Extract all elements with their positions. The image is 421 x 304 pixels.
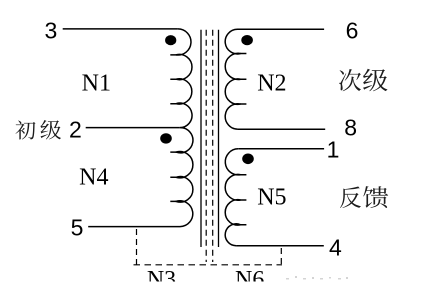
svg-text:N5: N5 [257,184,286,210]
wire pin3 to N1 top [63,28,178,30]
svg-text:N2: N2 [257,71,286,97]
winding N2 [225,29,240,129]
svg-text:1: 1 [327,137,340,163]
winding N5 cusp ticks [240,175,246,225]
svg-text:N3: N3 [147,267,176,293]
winding N1 [176,29,192,128]
polarity dot N1 [165,35,176,45]
dashed box bottom [134,264,283,266]
wire pin5 [88,226,180,228]
dashed box right side (N6 region) [280,248,282,265]
svg-text:N4: N4 [79,165,108,191]
core solid line left [200,30,202,247]
core dashed line right [212,30,214,262]
winding N1 cusp ticks [170,55,176,104]
polarity dot N4 [160,133,172,143]
wire pin1 to N5 top [238,148,324,150]
svg-text:4: 4 [329,234,342,260]
winding N4 cusp ticks [170,152,176,201]
faint watermark remnant [286,276,348,280]
wire pin2 (center tap) [86,127,180,129]
polarity dot N2 [241,35,253,45]
label 初级 (primary) [15,120,61,139]
svg-text:2: 2 [69,116,82,142]
winding N4 [176,128,193,227]
wire pin6 to N2 top [238,28,325,30]
core dashed line left [205,30,207,262]
wire pin8 [238,128,325,130]
winding N2 cusp ticks [240,54,246,105]
label 反馈 (feedback) [340,186,388,208]
winding label N6 (clipped at image crop) [235,267,264,293]
polarity dot N5 [242,154,254,165]
winding N5 [225,149,240,246]
dashed box left side (N3 region) [136,229,138,265]
svg-text:8: 8 [344,115,357,141]
svg-text:N1: N1 [82,71,111,97]
wire pin4 [236,245,324,247]
core solid line right [218,30,220,247]
svg-text:5: 5 [71,214,84,240]
svg-text:3: 3 [45,18,58,44]
winding label N3 (clipped at image crop) [147,267,176,293]
svg-text:6: 6 [346,17,359,43]
label 次级 (secondary) [339,69,388,92]
svg-text:N6: N6 [235,267,264,293]
